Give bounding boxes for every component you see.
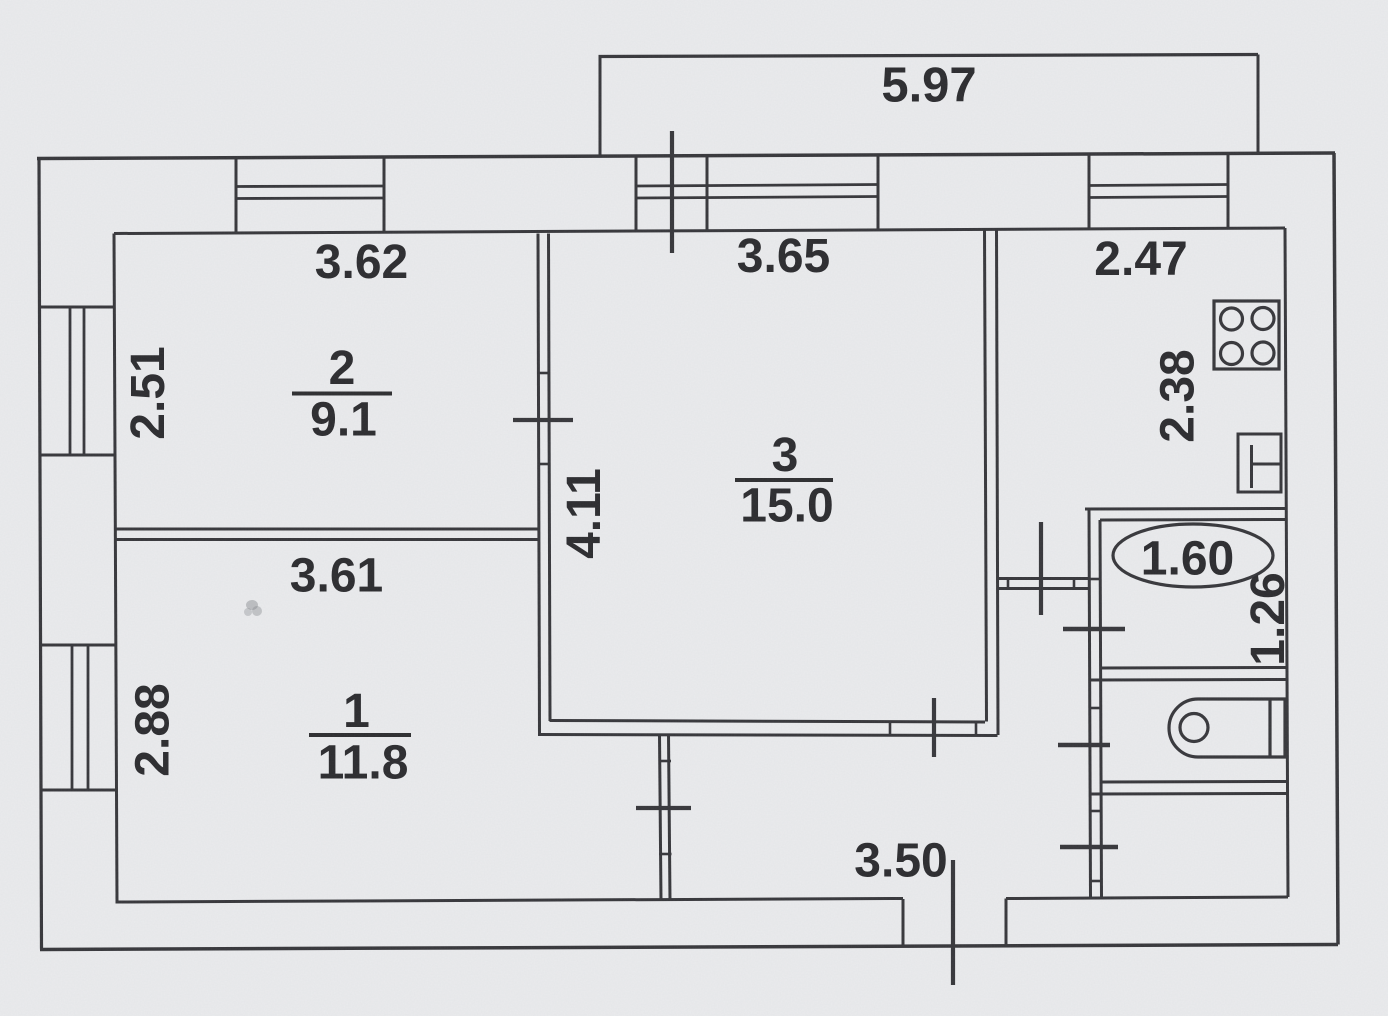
wire: top wall interior face [114, 228, 1285, 234]
room3 bottom wall cap 2 [975, 722, 978, 736]
window W4 top jamb [39, 306, 115, 309]
paper noise overlay [0, 0, 1, 1]
partition P2 top line [115, 528, 539, 531]
bathroom bottom wall outer line [1090, 678, 1288, 682]
P3 dimension tick [1039, 522, 1043, 615]
P1 cap 1 [537, 372, 550, 375]
room 3 fraction line [735, 478, 833, 482]
P5 cap 2 [659, 853, 672, 856]
kitchen bottom wall top line [998, 577, 1089, 580]
wire: left wall interior face [114, 234, 117, 903]
bathroom wall cap 1 [1088, 578, 1101, 581]
sink [1238, 434, 1281, 492]
storage door tick [1060, 845, 1118, 850]
P1 cap 2 [538, 463, 551, 466]
balcony right edge [1257, 55, 1260, 154]
room 2 fraction line [292, 392, 392, 396]
bathroom top wall inner line [1100, 518, 1286, 522]
entrance jamb left [902, 899, 905, 946]
entrance dimension tick [951, 860, 955, 985]
window W3 glass line 1 [1089, 185, 1228, 186]
kitchen bottom wall bottom line [997, 587, 1089, 590]
window W3 right jamb [1227, 154, 1230, 229]
outer wall right [1334, 153, 1338, 945]
window W5 glass line 1 [71, 645, 74, 790]
partition P3 right line [997, 229, 999, 735]
window W5 bottom jamb [40, 789, 116, 792]
balcony left edge [599, 57, 602, 155]
window W1 glass line 2 [236, 197, 384, 200]
bathroom wall cap 3 [1090, 810, 1103, 813]
window W2 left jamb [635, 156, 638, 231]
partition P1 right line [549, 234, 551, 722]
window W2 right jamb [877, 155, 880, 230]
bathroom door tick [1063, 627, 1125, 632]
window W2 middle jamb [706, 156, 709, 231]
window W1 glass line 1 [236, 185, 384, 188]
window W5 glass line 2 [87, 645, 90, 790]
outer wall left [39, 157, 42, 950]
P1 dimension tick [513, 418, 573, 422]
window W3 glass line 2 [1089, 197, 1228, 198]
partition P5 right line [669, 735, 671, 901]
entrance jamb right [1005, 899, 1008, 946]
toilet door tick [1058, 743, 1110, 748]
room3 bottom wall cap 1 [889, 721, 892, 735]
toilet [1169, 699, 1285, 757]
window W1 left jamb [235, 158, 238, 233]
window W2 glass line 2 [636, 197, 878, 199]
bathroom block left wall inner line [1100, 520, 1102, 897]
wire: bottom wall interior face left of entrance [116, 899, 904, 903]
partition P1 left line [538, 234, 540, 736]
room3 bottom wall outer line [538, 735, 998, 736]
bathroom top wall outer line [1085, 507, 1285, 511]
kitchen bottom wall cap 1 [1007, 578, 1010, 590]
wire: right wall interior face [1285, 228, 1288, 897]
bathroom block left wall outer line [1089, 509, 1091, 897]
outer wall top [37, 153, 1335, 159]
top wall dimension tick [670, 131, 674, 253]
partition P2 bottom line [115, 538, 539, 541]
P5 dimension tick [636, 806, 691, 810]
window W5 top jamb [40, 644, 116, 647]
toilet bottom wall outer line [1090, 792, 1288, 796]
toilet bottom wall inner line [1101, 780, 1288, 784]
window W4 glass line 1 [69, 307, 72, 455]
stove [1214, 301, 1279, 369]
balcony top edge [599, 55, 1259, 57]
wire: bottom wall interior face right of entrance [1006, 897, 1288, 899]
ink smudge artifact [244, 600, 262, 616]
bathtub area oval [1113, 524, 1273, 587]
bathroom bottom wall inner line [1101, 666, 1288, 670]
bathroom wall cap 2 [1089, 707, 1102, 710]
window W1 right jamb [383, 158, 386, 234]
room 1 fraction line [309, 733, 411, 737]
partition P3 left line [985, 229, 987, 722]
room3 bottom wall interior line [550, 721, 986, 723]
window W4 bottom jamb [39, 454, 115, 457]
outer wall bottom [40, 945, 1338, 950]
window W3 left jamb [1088, 155, 1091, 230]
partition P5 left line [660, 735, 662, 901]
kitchen bottom wall cap 2 [1073, 578, 1076, 590]
bathroom wall cap 4 [1090, 880, 1103, 883]
window W2 glass line 1 [636, 185, 878, 187]
window W4 glass line 2 [83, 307, 86, 455]
P5 cap 1 [659, 760, 672, 763]
room3 bottom wall dimension tick [932, 698, 936, 757]
